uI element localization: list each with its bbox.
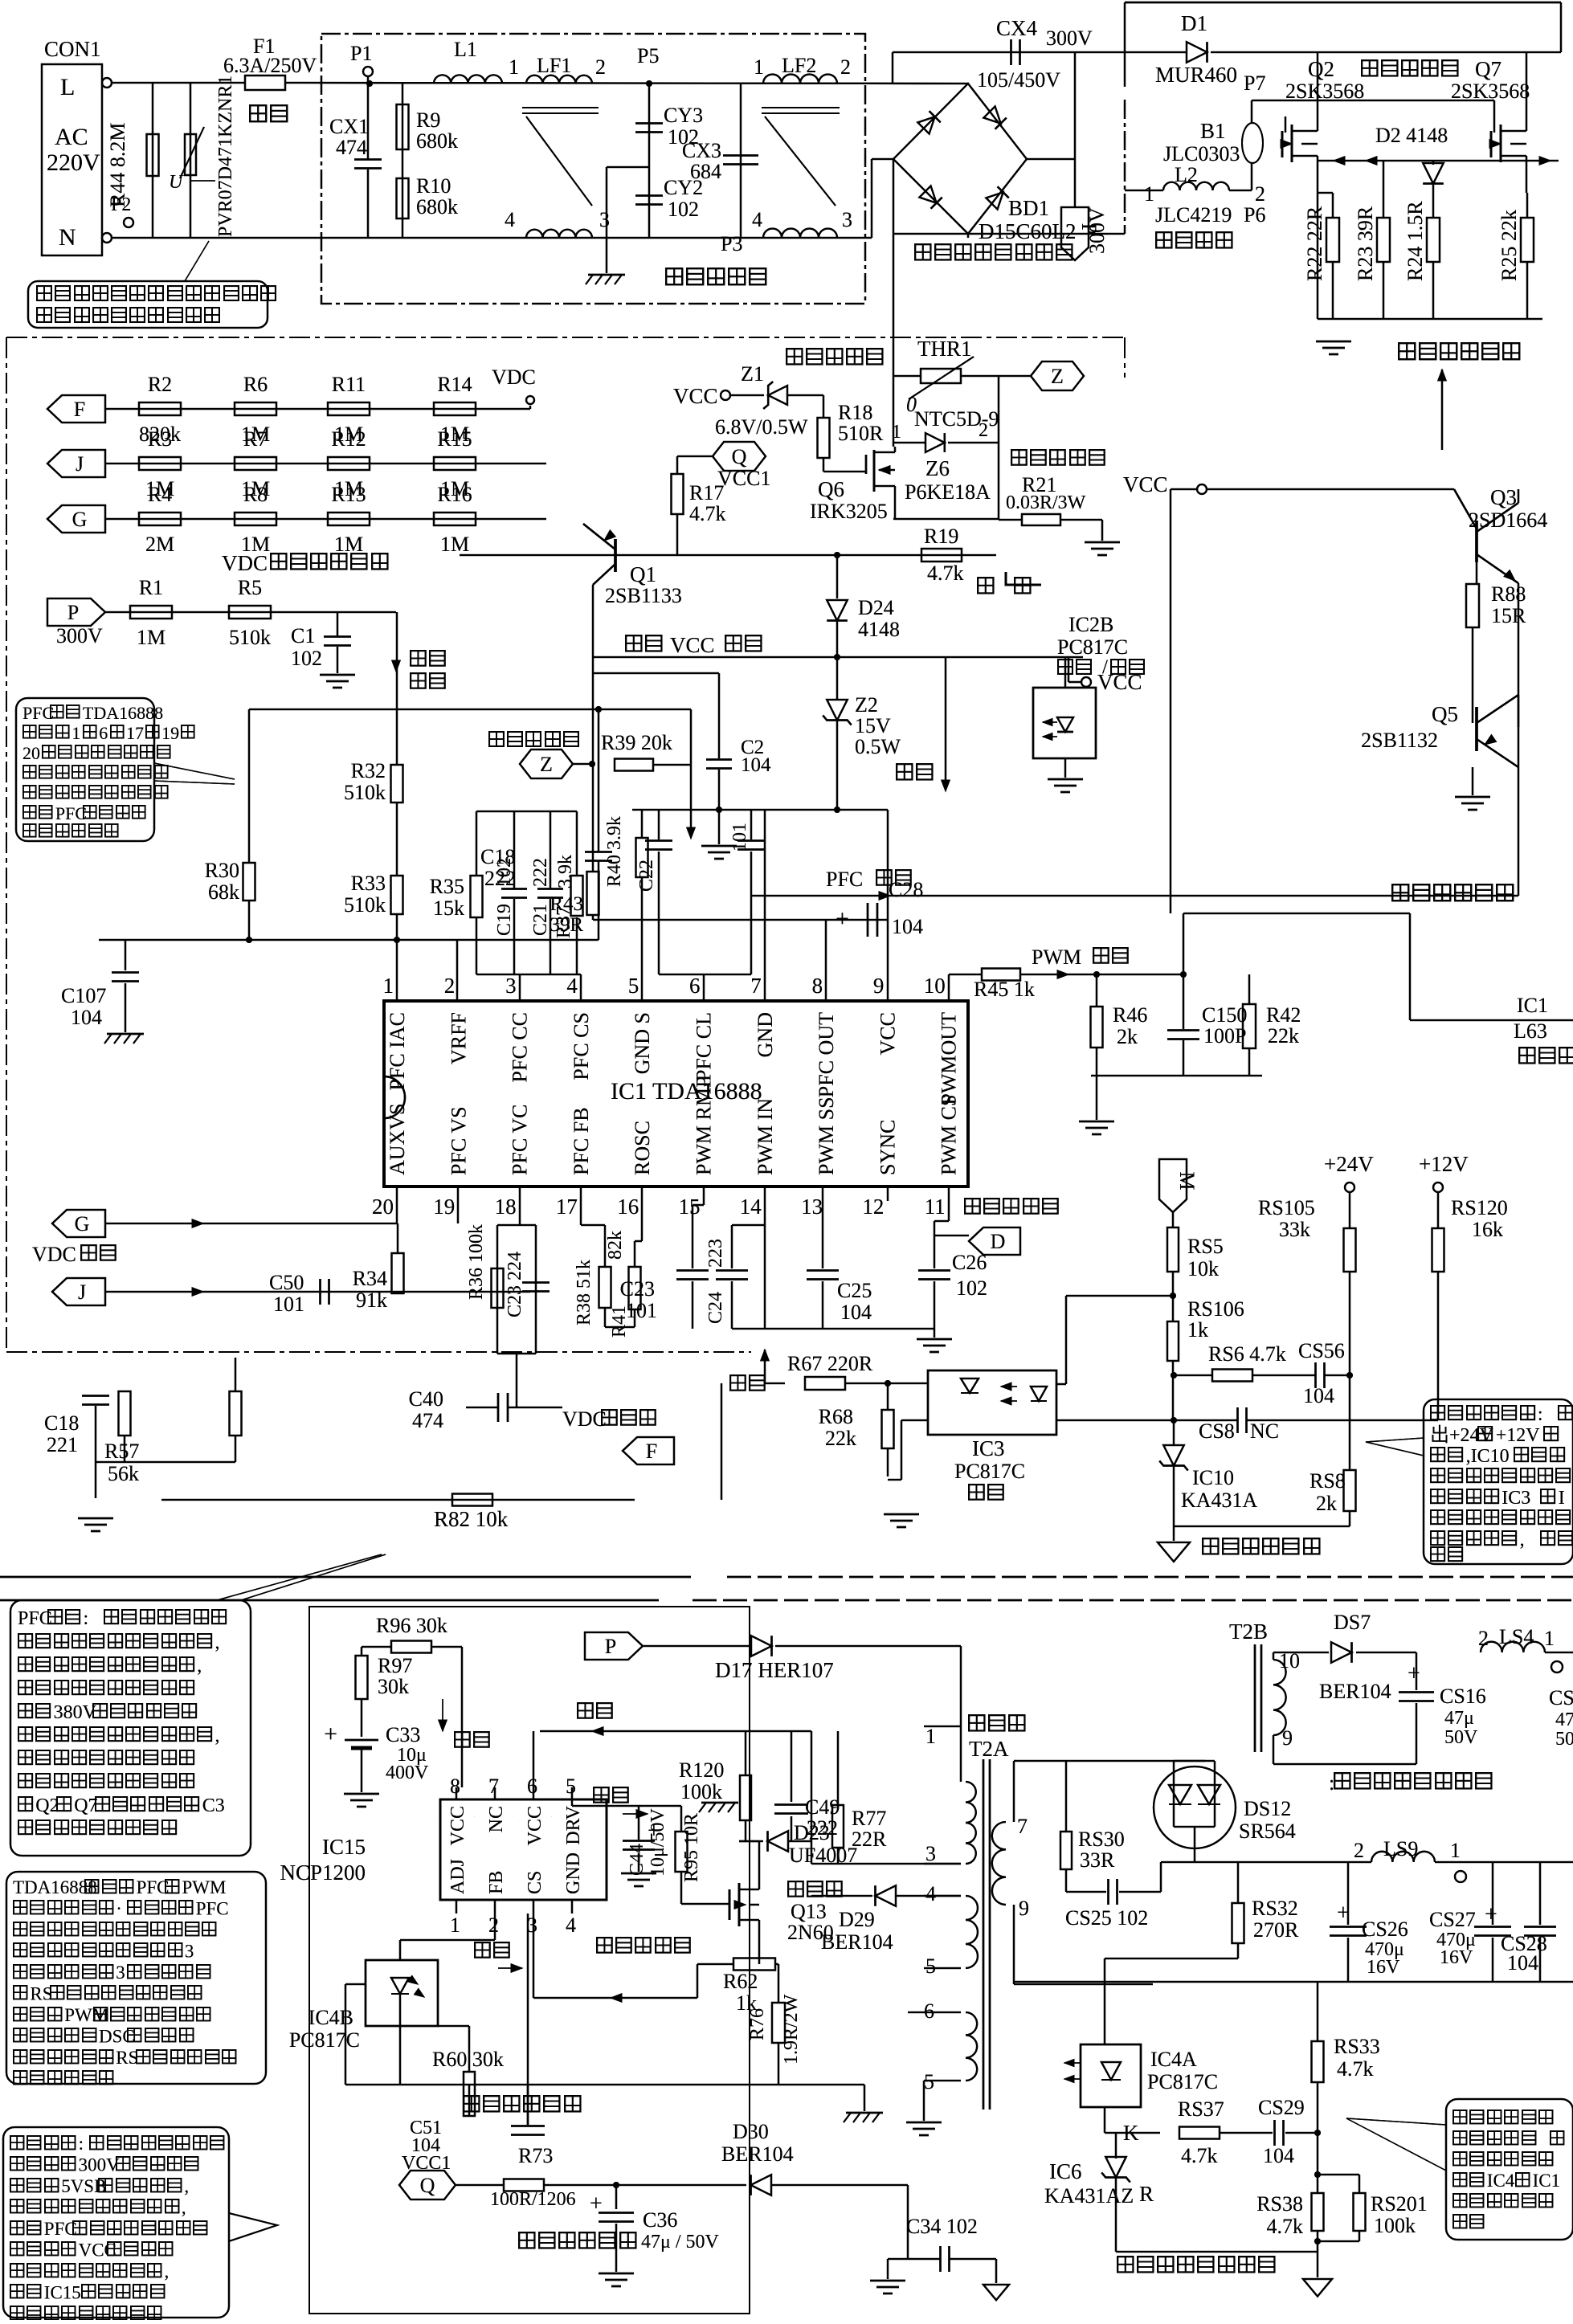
svg-text:PFC CC: PFC CC bbox=[509, 1012, 532, 1082]
svg-text:4.7k: 4.7k bbox=[689, 502, 726, 525]
svg-text:RS38: RS38 bbox=[1256, 2192, 1303, 2216]
svg-text:R82 10k: R82 10k bbox=[434, 1507, 509, 1531]
svg-text:NC: NC bbox=[1250, 1419, 1279, 1443]
svg-text:CY3: CY3 bbox=[664, 104, 703, 127]
svg-text:100k: 100k bbox=[680, 1780, 722, 1803]
svg-text:1: 1 bbox=[1544, 1627, 1555, 1650]
svg-text:47μ / 50V: 47μ / 50V bbox=[641, 2232, 720, 2253]
svg-text:R33: R33 bbox=[351, 872, 386, 895]
svg-text:VCC: VCC bbox=[1123, 472, 1168, 496]
svg-text:C50: C50 bbox=[269, 1271, 304, 1294]
svg-text:2: 2 bbox=[1354, 1839, 1364, 1862]
svg-text:104: 104 bbox=[840, 1301, 872, 1324]
svg-text:VCC: VCC bbox=[670, 633, 715, 657]
svg-text:PFC CS: PFC CS bbox=[570, 1012, 593, 1080]
svg-text:RS: RS bbox=[30, 1984, 52, 2004]
svg-text:22k: 22k bbox=[1268, 1024, 1299, 1048]
svg-text:·: · bbox=[116, 1899, 122, 1919]
svg-text:6: 6 bbox=[924, 1999, 934, 2023]
svg-text:2SB1133: 2SB1133 bbox=[605, 584, 682, 607]
svg-text:DRV: DRV bbox=[563, 1805, 584, 1844]
svg-text:Z: Z bbox=[540, 753, 553, 776]
svg-text:CS27: CS27 bbox=[1429, 1908, 1476, 1931]
svg-text:684: 684 bbox=[690, 160, 721, 183]
svg-text:IC15: IC15 bbox=[322, 1835, 366, 1859]
svg-text:1M: 1M bbox=[137, 626, 165, 649]
svg-text:PFC CL: PFC CL bbox=[693, 1012, 716, 1081]
svg-text:1: 1 bbox=[509, 55, 519, 79]
svg-text:,: , bbox=[197, 1656, 202, 1677]
svg-text:2: 2 bbox=[1255, 182, 1265, 206]
svg-text:BER104: BER104 bbox=[821, 1930, 893, 1954]
svg-text:C19: C19 bbox=[494, 904, 515, 936]
svg-text:VCC: VCC bbox=[447, 1806, 468, 1845]
svg-text:ROSC: ROSC bbox=[631, 1121, 654, 1175]
svg-text:13: 13 bbox=[801, 1195, 823, 1219]
svg-text:1: 1 bbox=[754, 55, 764, 79]
svg-text:R11: R11 bbox=[332, 373, 366, 396]
svg-text:PFC: PFC bbox=[44, 2219, 77, 2239]
svg-text:DS12: DS12 bbox=[1244, 1797, 1291, 1820]
svg-text:4.7k: 4.7k bbox=[1181, 2144, 1218, 2167]
svg-text:NCP1200: NCP1200 bbox=[280, 1860, 366, 1885]
svg-text:1: 1 bbox=[1144, 182, 1154, 206]
svg-text:102: 102 bbox=[291, 647, 322, 670]
svg-text:+: + bbox=[1485, 1902, 1497, 1927]
svg-text:6: 6 bbox=[689, 974, 701, 998]
svg-text:IC1 TDA16888: IC1 TDA16888 bbox=[611, 1078, 762, 1105]
svg-text:GND: GND bbox=[754, 1012, 777, 1057]
svg-text:104: 104 bbox=[1263, 2144, 1294, 2167]
svg-text:KA431A: KA431A bbox=[1181, 1489, 1258, 1512]
svg-text:R96 30k: R96 30k bbox=[376, 1614, 447, 1637]
svg-text:3: 3 bbox=[842, 208, 852, 231]
svg-text:16: 16 bbox=[617, 1195, 639, 1219]
svg-text:,: , bbox=[1520, 1530, 1525, 1550]
svg-text:C34 102: C34 102 bbox=[906, 2215, 978, 2238]
svg-text:300V: 300V bbox=[56, 624, 103, 647]
svg-text:9: 9 bbox=[1282, 1726, 1293, 1750]
svg-text:C49: C49 bbox=[805, 1795, 840, 1819]
svg-text:,: , bbox=[184, 2176, 189, 2196]
svg-text:221: 221 bbox=[47, 1433, 78, 1456]
svg-text:D24: D24 bbox=[858, 596, 894, 619]
svg-text:4: 4 bbox=[752, 208, 762, 231]
svg-text::: : bbox=[79, 2134, 84, 2154]
svg-text:1: 1 bbox=[450, 1914, 460, 1937]
svg-text:D2 4148: D2 4148 bbox=[1375, 124, 1448, 147]
svg-text:+12V: +12V bbox=[1496, 1425, 1541, 1446]
svg-text:,: , bbox=[182, 2198, 186, 2218]
svg-text:出+24V: 出+24V bbox=[1430, 1424, 1494, 1446]
svg-text:Q7: Q7 bbox=[1475, 57, 1501, 81]
svg-text:R10: R10 bbox=[416, 174, 451, 198]
svg-text:JLC0303: JLC0303 bbox=[1163, 142, 1240, 165]
svg-text:SYNC: SYNC bbox=[876, 1120, 899, 1175]
svg-text:5: 5 bbox=[924, 2070, 934, 2093]
svg-text:R19: R19 bbox=[924, 525, 958, 548]
svg-text:KA431AZ: KA431AZ bbox=[1044, 2184, 1134, 2208]
svg-text:R17: R17 bbox=[689, 481, 724, 504]
svg-text:Z1: Z1 bbox=[741, 362, 764, 386]
svg-text:R23 39R: R23 39R bbox=[1354, 206, 1377, 281]
svg-text:GND S: GND S bbox=[631, 1012, 654, 1074]
svg-text:6.3A/250V: 6.3A/250V bbox=[223, 54, 317, 77]
svg-text:PFC: PFC bbox=[18, 1608, 52, 1629]
svg-text:14: 14 bbox=[740, 1195, 762, 1219]
svg-text:510k: 510k bbox=[344, 781, 386, 804]
svg-text:C22: C22 bbox=[636, 860, 657, 892]
svg-text:6.8V/0.5W: 6.8V/0.5W bbox=[715, 415, 808, 439]
svg-text:Q6: Q6 bbox=[818, 477, 844, 501]
svg-text:R97: R97 bbox=[378, 1654, 412, 1677]
svg-text:R62: R62 bbox=[723, 1970, 758, 1993]
svg-text:R95 10R: R95 10R bbox=[681, 1813, 702, 1882]
svg-text:CX3: CX3 bbox=[682, 139, 721, 162]
svg-text:C25: C25 bbox=[837, 1279, 872, 1302]
svg-text:R3: R3 bbox=[148, 427, 172, 451]
svg-text:BER104: BER104 bbox=[1319, 1680, 1391, 1703]
svg-text:T2A: T2A bbox=[969, 1737, 1009, 1761]
svg-text::: : bbox=[1329, 1771, 1334, 1795]
svg-text:VCC: VCC bbox=[673, 384, 718, 408]
svg-text:380V: 380V bbox=[54, 1702, 97, 1723]
svg-text:18: 18 bbox=[495, 1195, 517, 1219]
svg-text:C40: C40 bbox=[409, 1387, 443, 1411]
svg-text:U: U bbox=[169, 172, 184, 193]
svg-text:102: 102 bbox=[494, 858, 515, 887]
svg-text:RS32: RS32 bbox=[1252, 1897, 1298, 1920]
svg-text:7: 7 bbox=[488, 1775, 499, 1798]
svg-text:F: F bbox=[74, 398, 85, 421]
svg-text:RS5: RS5 bbox=[1187, 1235, 1224, 1258]
svg-text:2SK3568: 2SK3568 bbox=[1285, 80, 1364, 103]
svg-text:IC1: IC1 bbox=[1533, 2171, 1561, 2191]
svg-text:B1: B1 bbox=[1200, 119, 1226, 143]
svg-text:PFC VC: PFC VC bbox=[509, 1105, 532, 1175]
svg-text:R73: R73 bbox=[518, 2144, 553, 2167]
svg-text:C23 224: C23 224 bbox=[505, 1252, 525, 1317]
svg-text:RS: RS bbox=[116, 2048, 138, 2068]
svg-text:FB: FB bbox=[486, 1871, 507, 1894]
svg-text:C44: C44 bbox=[627, 1844, 648, 1876]
svg-text:300V: 300V bbox=[1085, 207, 1109, 254]
svg-text:NC: NC bbox=[486, 1806, 507, 1832]
svg-text:474: 474 bbox=[412, 1409, 443, 1432]
svg-text:2: 2 bbox=[840, 55, 851, 79]
svg-text:PWMOUT: PWMOUT bbox=[938, 1012, 961, 1105]
svg-text:VCC1: VCC1 bbox=[717, 467, 770, 490]
svg-text:4: 4 bbox=[505, 208, 515, 231]
svg-text:4.7k: 4.7k bbox=[1267, 2215, 1304, 2238]
svg-text:680k: 680k bbox=[416, 195, 458, 219]
svg-text:2: 2 bbox=[488, 1914, 499, 1937]
svg-text:R40 3.9k: R40 3.9k bbox=[604, 816, 625, 887]
svg-text:PWM RMP: PWM RMP bbox=[693, 1076, 716, 1175]
svg-text:DSC: DSC bbox=[99, 2027, 135, 2047]
svg-text:PWM: PWM bbox=[182, 1877, 227, 1897]
svg-text:2: 2 bbox=[444, 974, 456, 998]
svg-text:1: 1 bbox=[925, 1725, 936, 1748]
svg-text:R8: R8 bbox=[243, 483, 268, 506]
svg-text:,IC10: ,IC10 bbox=[1466, 1446, 1510, 1467]
svg-text:T2B: T2B bbox=[1229, 1619, 1268, 1644]
svg-text:R9: R9 bbox=[416, 108, 440, 132]
svg-text:RS201: RS201 bbox=[1371, 2192, 1428, 2216]
svg-text:9: 9 bbox=[873, 974, 885, 998]
svg-text:+: + bbox=[324, 1721, 337, 1747]
svg-text:104: 104 bbox=[1507, 1951, 1538, 1975]
svg-text:10k: 10k bbox=[1187, 1257, 1219, 1280]
svg-text:PFC: PFC bbox=[55, 803, 87, 823]
svg-text:4.7k: 4.7k bbox=[927, 562, 964, 585]
svg-text:AUXVS: AUXVS bbox=[386, 1103, 409, 1175]
svg-text:3: 3 bbox=[185, 1942, 194, 1962]
svg-text:K: K bbox=[1123, 2121, 1139, 2145]
svg-text:2: 2 bbox=[595, 55, 606, 79]
svg-text:15: 15 bbox=[679, 1195, 701, 1219]
svg-text:C24: C24 bbox=[705, 1292, 726, 1324]
svg-text:,: , bbox=[165, 2261, 170, 2281]
svg-text:0.5W: 0.5W bbox=[855, 735, 901, 758]
svg-text:Q2: Q2 bbox=[1308, 57, 1334, 81]
svg-text:1: 1 bbox=[383, 974, 394, 998]
svg-text:Q5: Q5 bbox=[1432, 702, 1458, 726]
svg-text:TDA16888: TDA16888 bbox=[83, 703, 163, 723]
svg-text:R15: R15 bbox=[437, 427, 472, 451]
svg-text:17: 17 bbox=[126, 723, 144, 743]
svg-text:3.9k: 3.9k bbox=[555, 855, 576, 888]
svg-text:R1: R1 bbox=[139, 576, 163, 599]
svg-text:100P: 100P bbox=[1203, 1024, 1246, 1048]
svg-text:CS26: CS26 bbox=[1362, 1918, 1408, 1941]
svg-text:50: 50 bbox=[1555, 1729, 1573, 1750]
svg-text:PVR07D471KZNR1: PVR07D471KZNR1 bbox=[215, 76, 236, 237]
svg-text:R39 20k: R39 20k bbox=[601, 731, 672, 754]
svg-text:R35: R35 bbox=[430, 875, 464, 898]
svg-text:R57: R57 bbox=[104, 1440, 139, 1463]
svg-text:IC2B: IC2B bbox=[1068, 613, 1113, 636]
svg-text:RS33: RS33 bbox=[1334, 2035, 1380, 2058]
svg-text:19: 19 bbox=[433, 1195, 455, 1219]
svg-text:P2: P2 bbox=[111, 194, 131, 215]
svg-text:223: 223 bbox=[705, 1239, 726, 1268]
svg-text:VDC: VDC bbox=[562, 1407, 607, 1431]
svg-text:1: 1 bbox=[892, 422, 901, 443]
svg-text:R76: R76 bbox=[747, 2008, 768, 2040]
svg-text:Q: Q bbox=[732, 445, 747, 468]
svg-text:19: 19 bbox=[161, 723, 179, 743]
svg-text:300V: 300V bbox=[1046, 27, 1093, 50]
svg-text:IC10: IC10 bbox=[1192, 1466, 1234, 1489]
svg-text:R42: R42 bbox=[1266, 1003, 1301, 1027]
svg-text:1: 1 bbox=[71, 723, 80, 743]
svg-text:4: 4 bbox=[925, 1882, 936, 1905]
svg-text:IRK3205: IRK3205 bbox=[810, 500, 888, 523]
svg-text:P6: P6 bbox=[1244, 203, 1265, 227]
svg-text:15k: 15k bbox=[433, 897, 464, 920]
svg-text:5: 5 bbox=[628, 974, 639, 998]
svg-text:C107: C107 bbox=[61, 984, 106, 1007]
svg-text:3: 3 bbox=[599, 208, 610, 231]
svg-text:P5: P5 bbox=[637, 44, 659, 67]
svg-text:2k: 2k bbox=[1316, 1492, 1337, 1515]
svg-text:105/450V: 105/450V bbox=[977, 68, 1060, 92]
svg-text:50V: 50V bbox=[1444, 1727, 1478, 1748]
svg-text:G: G bbox=[72, 508, 88, 531]
svg-text:D29: D29 bbox=[839, 1908, 875, 1931]
svg-text:PWM SS: PWM SS bbox=[815, 1097, 838, 1175]
svg-text:4: 4 bbox=[566, 1914, 576, 1937]
svg-text:R38 51k: R38 51k bbox=[574, 1260, 594, 1325]
svg-text:J: J bbox=[78, 1280, 86, 1304]
svg-text:R36 100k: R36 100k bbox=[466, 1224, 487, 1300]
svg-text:R12: R12 bbox=[331, 427, 366, 451]
svg-text:J: J bbox=[76, 452, 84, 476]
svg-text:R13: R13 bbox=[331, 483, 366, 506]
svg-text:2M: 2M bbox=[145, 533, 174, 556]
svg-text:2: 2 bbox=[979, 420, 988, 441]
svg-text:P: P bbox=[67, 601, 79, 624]
svg-text:222: 222 bbox=[530, 858, 551, 887]
svg-text:RS8: RS8 bbox=[1309, 1469, 1346, 1493]
svg-text:102: 102 bbox=[956, 1276, 987, 1300]
svg-text:101: 101 bbox=[729, 823, 750, 852]
svg-text:400V: 400V bbox=[386, 1762, 429, 1783]
svg-text:270R: 270R bbox=[1253, 1918, 1299, 1942]
svg-text:104: 104 bbox=[892, 915, 923, 938]
svg-text:LF1: LF1 bbox=[537, 54, 571, 77]
svg-text:C23: C23 bbox=[620, 1277, 655, 1301]
svg-text:R120: R120 bbox=[679, 1758, 724, 1782]
svg-text:4: 4 bbox=[566, 974, 578, 998]
svg-text:C3: C3 bbox=[202, 1795, 225, 1816]
svg-text:R88: R88 bbox=[1491, 582, 1526, 606]
svg-text:CS8: CS8 bbox=[1199, 1419, 1235, 1443]
svg-text:7: 7 bbox=[750, 974, 762, 998]
svg-text:RS37: RS37 bbox=[1178, 2097, 1224, 2121]
svg-text:Z2: Z2 bbox=[855, 693, 878, 717]
svg-text:102: 102 bbox=[668, 198, 699, 221]
svg-text:104: 104 bbox=[741, 754, 771, 776]
svg-text:101: 101 bbox=[626, 1299, 657, 1322]
svg-text:510k: 510k bbox=[229, 626, 271, 649]
svg-text:R: R bbox=[1139, 2182, 1154, 2206]
svg-text:R6: R6 bbox=[243, 373, 268, 396]
svg-text:R45 1k: R45 1k bbox=[974, 978, 1035, 1001]
svg-text:+: + bbox=[836, 905, 849, 932]
svg-text:PFC VS: PFC VS bbox=[447, 1106, 470, 1175]
svg-text:15R: 15R bbox=[1491, 604, 1526, 627]
svg-text:R67 220R: R67 220R bbox=[787, 1352, 873, 1375]
svg-text:BD1: BD1 bbox=[1008, 196, 1049, 220]
svg-text:VCC: VCC bbox=[79, 2240, 116, 2261]
svg-text:Q13: Q13 bbox=[791, 1900, 827, 1923]
svg-text:20: 20 bbox=[22, 743, 40, 763]
svg-text:VDC: VDC bbox=[32, 1243, 76, 1266]
svg-text:+: + bbox=[1408, 1661, 1420, 1686]
svg-text:R60 30k: R60 30k bbox=[432, 2048, 504, 2071]
svg-text:3: 3 bbox=[505, 974, 517, 998]
svg-text:16k: 16k bbox=[1472, 1218, 1503, 1241]
svg-text:C21: C21 bbox=[530, 904, 551, 936]
svg-text:PC817C: PC817C bbox=[1147, 2070, 1218, 2093]
svg-text:100R/1206: 100R/1206 bbox=[490, 2189, 576, 2210]
svg-text:2SK3568: 2SK3568 bbox=[1451, 80, 1530, 103]
svg-text:R7: R7 bbox=[243, 427, 268, 451]
svg-text:IC4A: IC4A bbox=[1150, 2048, 1197, 2071]
svg-text:PC817C: PC817C bbox=[289, 2028, 360, 2052]
svg-text::: : bbox=[84, 1608, 89, 1629]
svg-text:30k: 30k bbox=[378, 1675, 409, 1698]
svg-text:L1: L1 bbox=[454, 38, 477, 61]
svg-text:20: 20 bbox=[372, 1195, 394, 1219]
svg-text:IC3: IC3 bbox=[972, 1436, 1005, 1460]
svg-text:R5: R5 bbox=[238, 576, 262, 599]
svg-text:100k: 100k bbox=[1374, 2214, 1416, 2237]
svg-text:R34: R34 bbox=[353, 1267, 387, 1290]
svg-text:510k: 510k bbox=[344, 893, 386, 917]
svg-text:PFC FB: PFC FB bbox=[570, 1107, 593, 1175]
svg-text:C33: C33 bbox=[386, 1723, 420, 1746]
svg-text:D1: D1 bbox=[1181, 11, 1207, 35]
svg-text:10μ/50V: 10μ/50V bbox=[648, 1807, 668, 1877]
svg-text:56k: 56k bbox=[108, 1462, 139, 1485]
svg-text:4148: 4148 bbox=[858, 618, 900, 641]
svg-text:5: 5 bbox=[566, 1775, 576, 1798]
svg-text:10: 10 bbox=[924, 974, 946, 998]
svg-text:101: 101 bbox=[273, 1293, 304, 1316]
svg-text:JLC4219: JLC4219 bbox=[1155, 203, 1232, 227]
svg-text:RS6 4.7k: RS6 4.7k bbox=[1208, 1342, 1286, 1366]
svg-text:R18: R18 bbox=[838, 401, 872, 424]
svg-text:11: 11 bbox=[925, 1195, 946, 1219]
svg-text:DS7: DS7 bbox=[1334, 1611, 1371, 1634]
svg-text:IC4B: IC4B bbox=[308, 2006, 353, 2029]
svg-text:33k: 33k bbox=[1279, 1218, 1310, 1241]
svg-text:6: 6 bbox=[99, 723, 108, 743]
svg-text:R24 1.5R: R24 1.5R bbox=[1403, 201, 1427, 281]
svg-text:7: 7 bbox=[1017, 1815, 1028, 1838]
svg-text:C18: C18 bbox=[44, 1411, 79, 1435]
svg-text:IC6: IC6 bbox=[1049, 2159, 1082, 2183]
svg-text:R25 22k: R25 22k bbox=[1497, 210, 1521, 281]
svg-text:8: 8 bbox=[450, 1775, 460, 1798]
svg-text:CON1: CON1 bbox=[44, 37, 101, 61]
svg-text:CS: CS bbox=[525, 1871, 545, 1894]
svg-text:PC817C: PC817C bbox=[1057, 635, 1128, 659]
svg-text:Q7: Q7 bbox=[74, 1795, 97, 1816]
svg-text:IC15: IC15 bbox=[44, 2283, 81, 2303]
svg-text:R30: R30 bbox=[205, 859, 239, 882]
svg-text:C36: C36 bbox=[643, 2208, 677, 2232]
svg-text:C1: C1 bbox=[291, 624, 315, 647]
svg-text:PFC IAC: PFC IAC bbox=[386, 1012, 409, 1091]
svg-text:3: 3 bbox=[116, 1963, 125, 1983]
svg-text:R77: R77 bbox=[852, 1807, 886, 1830]
svg-text:D17 HER107: D17 HER107 bbox=[715, 1658, 834, 1682]
svg-text:F: F bbox=[646, 1440, 657, 1463]
svg-text:GND: GND bbox=[563, 1852, 584, 1894]
svg-text:R43: R43 bbox=[550, 893, 583, 915]
svg-text:L: L bbox=[60, 74, 75, 100]
svg-text:R4: R4 bbox=[148, 483, 172, 506]
svg-text:104: 104 bbox=[71, 1006, 102, 1029]
svg-text:CS29: CS29 bbox=[1258, 2096, 1305, 2119]
svg-text:82k: 82k bbox=[605, 1231, 626, 1260]
svg-text:R32: R32 bbox=[351, 759, 386, 782]
svg-text:33R: 33R bbox=[1080, 1848, 1115, 1872]
